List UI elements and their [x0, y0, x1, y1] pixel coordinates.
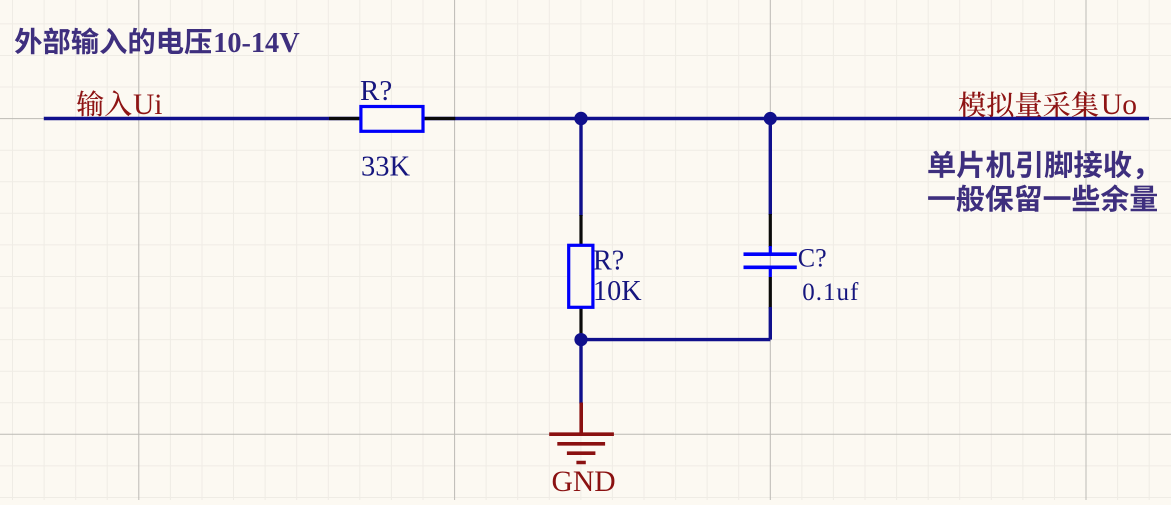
annotation: external input voltage title: [15, 28, 300, 60]
annotation: MCU pin receive note line 1: [928, 151, 1143, 180]
resistor R1 body (33K horizontal): [361, 107, 423, 132]
resistor R2 body (10K vertical): [569, 245, 593, 307]
svg-text:10K: 10K: [593, 276, 642, 307]
ground symbol GND (stem + 4 bars): [549, 403, 614, 463]
svg-text:10-14V: 10-14V: [213, 28, 300, 59]
svg-text:GND: GND: [552, 466, 616, 498]
junction node A (divider tap, x=581): [574, 112, 587, 125]
resistor R1 pins (left/right leads): [329, 117, 455, 120]
wire: node A down to R2: [579, 119, 582, 217]
wire: R2 bottom to ground node: [579, 335, 582, 341]
wire: main horizontal net Ui to Uo: [44, 117, 1149, 120]
wire: bottom rail R2 to C1: [581, 338, 770, 341]
svg-text:R?: R?: [593, 246, 624, 277]
node label: 模拟量采集Uo (analog acquisition Uo): [959, 89, 1137, 121]
capacitor C1 body (plates + stubs): [744, 246, 797, 277]
svg-text:33K: 33K: [361, 152, 411, 183]
svg-text:Uo: Uo: [1101, 89, 1137, 121]
svg-text:C?: C?: [798, 244, 827, 273]
wire: node B down to C1: [769, 119, 772, 216]
svg-text:Ui: Ui: [133, 89, 163, 121]
wire: C1 bottom to ground rail: [769, 307, 772, 340]
resistor R2 pins (top/bottom leads): [579, 215, 582, 337]
node label: 输入Ui (input Ui): [77, 89, 163, 121]
capacitor C1 pins (top/bottom black leads): [769, 214, 772, 309]
junction node C (ground node): [574, 333, 587, 346]
svg-text:R?: R?: [360, 75, 392, 107]
junction node B (capacitor tap, x=770): [764, 112, 777, 125]
annotation: MCU pin receive note line 2: [928, 184, 1157, 212]
wire: ground node down: [579, 340, 582, 404]
svg-text:0.1uf: 0.1uf: [802, 279, 859, 306]
